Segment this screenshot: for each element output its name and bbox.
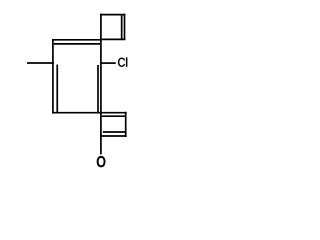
bottom square inner top double-bond line xyxy=(102,115,125,117)
top square right edge xyxy=(124,14,126,40)
bond to Cl xyxy=(101,62,116,64)
bottom square right edge xyxy=(125,112,127,137)
bottom square bottom edge xyxy=(100,135,127,137)
methyl stub bond (left) xyxy=(27,62,54,64)
atom label O xyxy=(97,156,105,167)
ring right inner double-bond line xyxy=(97,65,99,112)
main vertical: square left edge + ring right edge + bond to O xyxy=(100,14,102,155)
ring left edge xyxy=(52,39,54,114)
atom label Cl xyxy=(118,57,127,66)
top square top edge xyxy=(100,14,125,16)
ring top edge (extends under top square) xyxy=(52,39,101,41)
ring top inner double-bond line xyxy=(54,43,100,45)
ring left inner double-bond line xyxy=(56,65,58,113)
bottom square inner bottom double-bond line xyxy=(103,131,125,133)
top square inner double-bond vertical xyxy=(121,15,123,39)
ring bottom edge (extends under bottom square) xyxy=(52,112,127,114)
top square bottom edge (collinear with ring top) xyxy=(101,38,126,40)
